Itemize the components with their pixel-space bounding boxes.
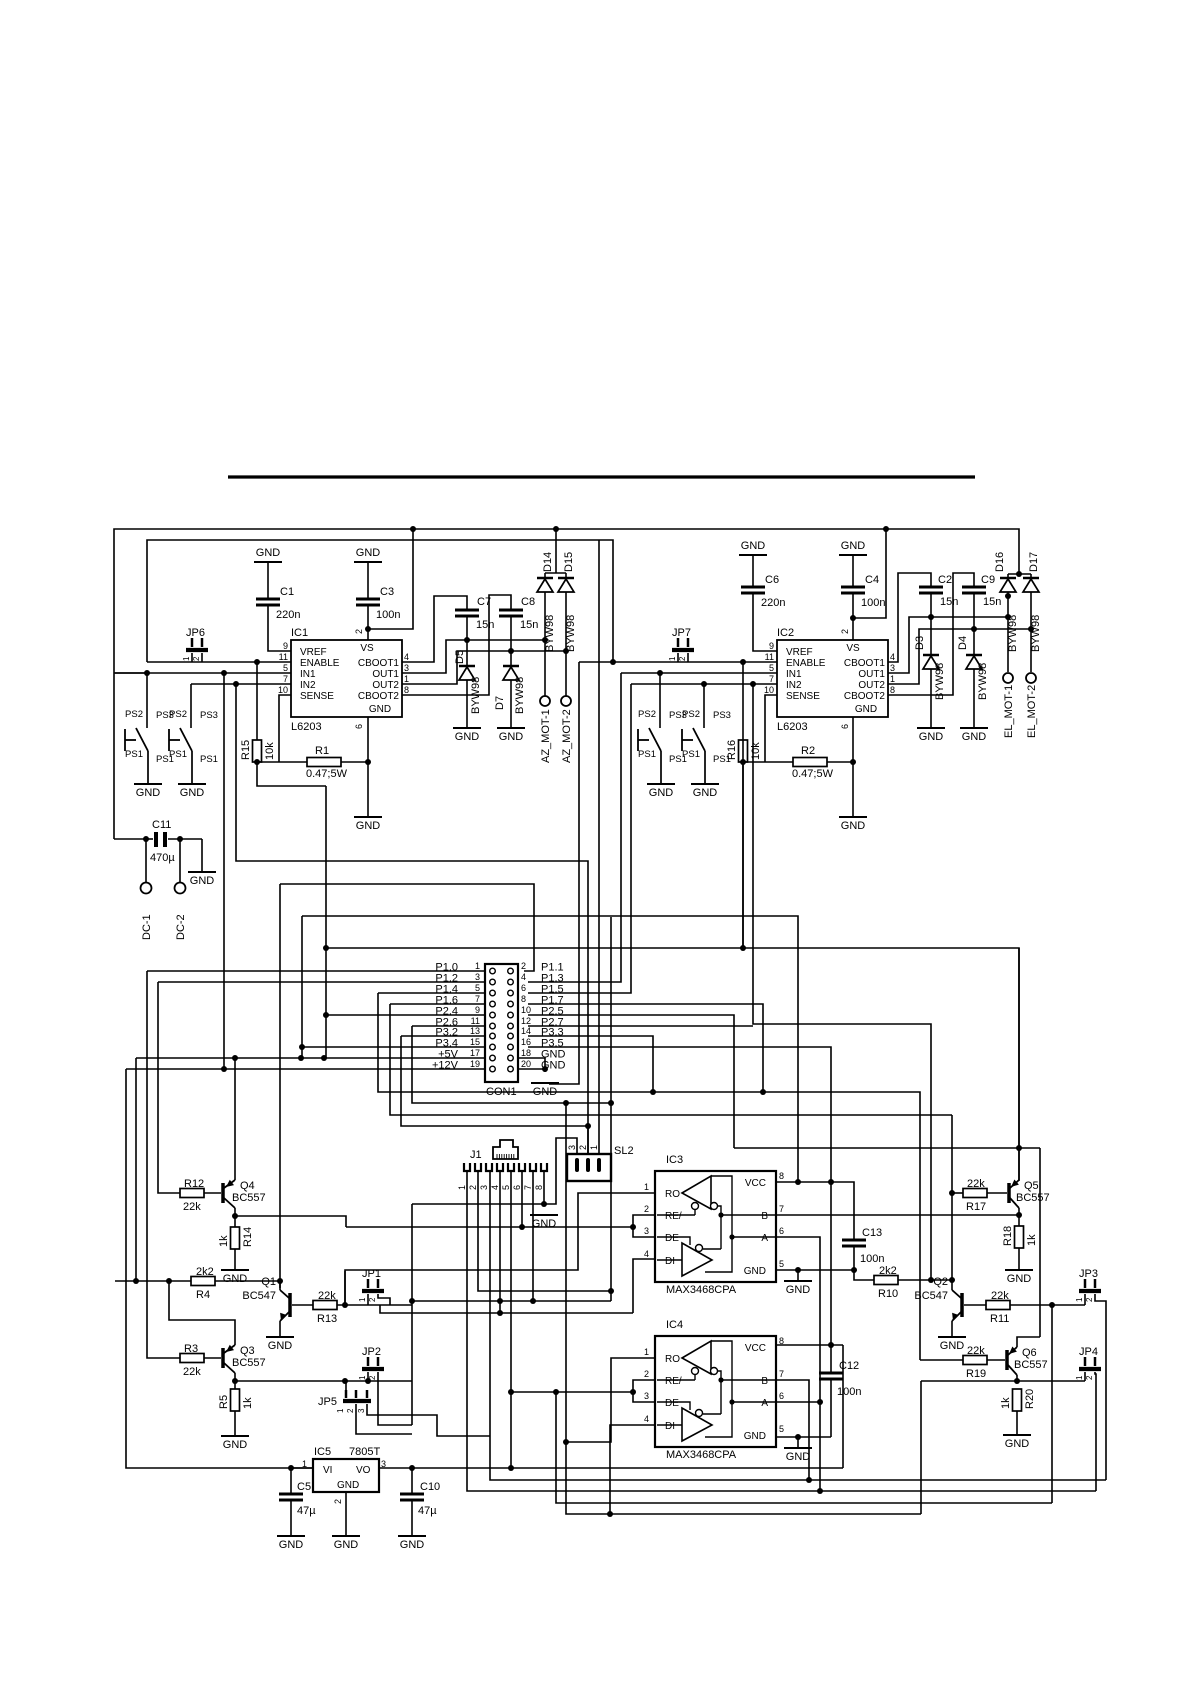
ground under D5 (453, 727, 481, 729)
svg-text:CBOOT2: CBOOT2 (358, 691, 400, 702)
resistor R4 2k2 (191, 1277, 215, 1286)
wire OUT1 to snubber line (402, 640, 545, 673)
svg-text:6: 6 (779, 1391, 784, 1401)
wire GND line to J1 pin8 (412, 1203, 544, 1205)
svg-text:IN2: IN2 (300, 680, 316, 691)
wire R14 from collector node (234, 1216, 236, 1227)
svg-text:6: 6 (512, 1185, 522, 1190)
wire P1.2 row to R12 feed riser (158, 981, 485, 983)
svg-text:DE: DE (665, 1233, 679, 1244)
IC4 junction internal B (718, 1377, 723, 1382)
svg-text:EL_MOT-2: EL_MOT-2 (1026, 685, 1038, 738)
J1 pin 5 symbol (508, 1163, 514, 1171)
svg-text:MAX3468CPA: MAX3468CPA (666, 1284, 737, 1296)
junction IN1 / switch S1 (144, 670, 150, 676)
svg-text:2: 2 (644, 1204, 649, 1214)
wire Q2 collector up (951, 1288, 953, 1290)
junction x326 y948 (323, 945, 329, 951)
svg-text:GND: GND (649, 787, 674, 799)
IC4 driver enable bubble (696, 1410, 703, 1417)
svg-text:22k: 22k (183, 1366, 201, 1378)
wire Q2 emitter to GND (951, 1321, 953, 1337)
svg-text:PS1: PS1 (200, 754, 218, 765)
wire P1.1 riser down to Q1 (279, 884, 281, 1288)
svg-text:R10: R10 (878, 1288, 898, 1300)
switch S3 (PS2/PS3) (659, 673, 661, 728)
wire R11 to JP3 pin1 (1010, 1304, 1085, 1306)
resistor R5 1k (231, 1389, 240, 1411)
wire R17 left to x952 riser (952, 1192, 963, 1194)
svg-text:DI: DI (665, 1256, 675, 1267)
wire P1.7 row right riser to y1093 (528, 1004, 763, 1092)
svg-text:1: 1 (182, 656, 191, 661)
CON1 pin 9 circle (490, 1012, 496, 1018)
capacitor C4 100n (852, 555, 854, 587)
svg-text:R12: R12 (184, 1178, 204, 1190)
resistor R10 2k2 (874, 1276, 898, 1285)
CON1 pin 13 circle (490, 1033, 496, 1039)
svg-text:1: 1 (890, 674, 895, 684)
resistor R16 10k (739, 740, 748, 762)
svg-text:SL2: SL2 (614, 1145, 634, 1157)
wire Q1 emitter to GND (279, 1321, 281, 1337)
svg-text:GND: GND (744, 1266, 766, 1277)
svg-text:D7: D7 (494, 696, 506, 710)
svg-text:7: 7 (779, 1369, 784, 1379)
svg-text:GND: GND (268, 1340, 293, 1352)
svg-text:GND: GND (962, 731, 987, 743)
wire P3.5 row right to VCC riser x831 (528, 1047, 831, 1182)
wire D15 to AZ_MOT-2 pad (565, 592, 567, 696)
ground under D4 (960, 727, 988, 729)
diode D16 BYW98 (1007, 574, 1009, 578)
ground under IC4 pin5 (797, 1437, 799, 1448)
capacitor C3 100n (367, 562, 369, 599)
wire R4 line (115, 1280, 280, 1282)
wire P3.3 row right riser to y1093 (528, 1036, 653, 1092)
junction OUT2 / AZ_MOT-2 line (563, 648, 569, 654)
wire SENSE2 down to R2 left (765, 695, 777, 762)
svg-text:5: 5 (779, 1424, 784, 1434)
junction P2.4 / x326 (323, 1012, 329, 1018)
svg-text:1: 1 (336, 1408, 345, 1413)
junction SL2 pin2 line (585, 1123, 591, 1129)
bracket IC3 RE DE tied (633, 1215, 655, 1237)
svg-text:R1: R1 (315, 745, 329, 757)
wire IC3 DI elbow to data line (633, 1259, 655, 1313)
wire x1040 supply drop (1039, 1148, 1041, 1337)
wire J1 pin4 down to data line (499, 1171, 501, 1313)
svg-text:PS1: PS1 (713, 754, 731, 765)
svg-text:6: 6 (779, 1226, 784, 1236)
wire IC4 RO left and down to x566 bus (566, 1358, 655, 1442)
junction OUT1 / AZ_MOT-1 line (542, 637, 548, 643)
junction Q6 collector / R20 (1014, 1378, 1020, 1384)
wire J1 pin6 to IC3 ctrl line (521, 1171, 523, 1227)
junction OUT1 / C7 bottom (464, 637, 470, 643)
svg-text:4: 4 (490, 1185, 500, 1190)
wire Q5 emitter up (1018, 1148, 1020, 1180)
svg-text:3: 3 (567, 1145, 577, 1150)
connector SL2 box (567, 1154, 611, 1181)
svg-text:SENSE: SENSE (786, 691, 820, 702)
ground under IC2 (839, 816, 867, 818)
svg-text:VI: VI (323, 1465, 332, 1476)
svg-text:PS2: PS2 (169, 709, 187, 720)
wire VS junction to rail riser right (853, 531, 886, 618)
svg-text:GND: GND (180, 787, 205, 799)
svg-text:RO: RO (665, 1354, 680, 1365)
wire D16 to EL_MOT-1 pad (1007, 592, 1009, 672)
svg-text:7: 7 (779, 1204, 784, 1214)
junction J1 pin5 / RS485-2 ctrl (508, 1389, 514, 1395)
wire IC3 ctrl line left (346, 1226, 633, 1228)
wire CON1 pin20 GND stub (518, 1068, 545, 1070)
svg-text:220n: 220n (276, 609, 300, 621)
CON1 pin 3 circle (490, 979, 496, 985)
wire rail drop joining D14 D15 cathodes (555, 529, 557, 573)
svg-text:VCC: VCC (745, 1178, 766, 1189)
svg-text:VREF: VREF (300, 647, 327, 658)
svg-text:L6203: L6203 (777, 721, 808, 733)
wire JP3 pin1 down (1084, 1294, 1086, 1305)
junction Q3 collector / ctrl2 line (232, 1378, 238, 1384)
svg-text:8: 8 (890, 685, 895, 695)
resistor R19 22k (963, 1356, 987, 1365)
svg-text:PS1: PS1 (125, 749, 143, 760)
junction Q4 collector node (232, 1213, 238, 1219)
ground under R14 (221, 1269, 249, 1271)
wire supply branch y948 to x1019 and Q5 (1018, 948, 1020, 1148)
junction R13 / RO line (342, 1302, 348, 1308)
junction C4 / VS (850, 615, 856, 621)
svg-text:PS2: PS2 (682, 709, 700, 720)
svg-text:GND: GND (1005, 1438, 1030, 1450)
wire Q6 collector to y1381 right (1016, 1375, 1018, 1381)
svg-text:L6203: L6203 (291, 721, 322, 733)
wire P1.4 row riser to y1092 bus to R19 (378, 992, 485, 994)
svg-text:RE/: RE/ (665, 1376, 682, 1387)
junction D16 bottom (1005, 593, 1011, 599)
wire IC3 A line down to IC4 A (776, 1237, 820, 1402)
resistor R15 10k (253, 740, 262, 762)
junction C13/GND line (851, 1267, 857, 1273)
svg-text:GND: GND (190, 875, 215, 887)
IC3 receiver enable bubble (692, 1203, 699, 1210)
svg-text:C11: C11 (152, 819, 171, 831)
wire x301 from y917 bus (301, 916, 303, 1058)
ground under Q2 (938, 1336, 966, 1338)
IC3 internal B net (718, 1206, 721, 1249)
svg-text:1: 1 (475, 961, 480, 971)
wire to GND stub right of C11 (201, 839, 203, 872)
resistor R13 22k (313, 1301, 337, 1310)
svg-text:2: 2 (578, 1145, 588, 1150)
CON1 pin 16 circle (508, 1044, 514, 1050)
svg-text:1k: 1k (1026, 1234, 1038, 1246)
svg-text:100n: 100n (376, 609, 400, 621)
transistor Q4 BC557 (221, 1183, 225, 1203)
svg-text:R13: R13 (317, 1313, 337, 1325)
ground under D7 (497, 727, 525, 729)
svg-text:7: 7 (283, 674, 288, 684)
svg-text:CBOOT1: CBOOT1 (844, 658, 886, 669)
J1 pin 2 symbol (475, 1163, 481, 1171)
svg-text:D14: D14 (542, 552, 554, 572)
svg-text:GND: GND (533, 1086, 558, 1098)
svg-text:C3: C3 (380, 586, 394, 598)
junction VCC x798 (795, 1179, 801, 1185)
svg-text:GND: GND (940, 1340, 965, 1352)
junction C11 right (177, 836, 183, 842)
svg-text:9: 9 (769, 641, 774, 651)
wire CBOOT2 to C8 top (402, 595, 511, 695)
IC U1 driver IC1 L6203 box (291, 640, 402, 717)
wire Q3 collector down (234, 1373, 236, 1389)
junction rail / D14 D15 riser (553, 526, 559, 532)
CON1 pin 15 circle (490, 1044, 496, 1050)
junction VO / C10 / x412 (409, 1465, 415, 1471)
capacitor C5 47u (290, 1468, 292, 1494)
wire sense bus riser x326 to y948 (326, 786, 1019, 1181)
svg-text:C7: C7 (477, 596, 491, 608)
CON1 pin 12 circle (508, 1023, 514, 1029)
capacitor C9 15n (962, 586, 986, 589)
wire IN2-2 net to IC2 pin 7 (631, 683, 777, 685)
svg-text:Q2: Q2 (933, 1276, 948, 1288)
wire x843 VCC to VO 5V line (842, 1345, 844, 1468)
svg-text:MAX3468CPA: MAX3468CPA (666, 1449, 737, 1461)
resistor R3 22k (180, 1354, 204, 1363)
svg-text:R2: R2 (801, 745, 815, 757)
wire Q4 emitter to +5V (234, 1058, 236, 1180)
wire x952 riser (951, 1115, 953, 1288)
svg-text:PS2: PS2 (125, 709, 143, 720)
svg-text:J1: J1 (470, 1149, 482, 1161)
svg-text:D16: D16 (994, 552, 1006, 572)
wire IC4 A line down to bus L2 (776, 1402, 820, 1492)
svg-text:BYW98: BYW98 (934, 663, 946, 700)
wire SL2 pin1 riser (598, 540, 600, 1154)
svg-text:EL_MOT-1: EL_MOT-1 (1003, 685, 1015, 738)
svg-text:2: 2 (678, 656, 687, 661)
CON1 pin 10 circle (508, 1012, 514, 1018)
svg-text:GND: GND (841, 540, 866, 552)
svg-text:4: 4 (644, 1249, 649, 1259)
switch S1 (PS2/PS3) (146, 673, 148, 728)
junction data line / J1 pin4 (497, 1310, 503, 1316)
wire IC4 VCC line (776, 1344, 843, 1346)
CON1 pin 7 circle (490, 1001, 496, 1007)
junction VI / C5 (288, 1465, 294, 1471)
wire JP7 pins down to ENABLE2 (677, 653, 679, 662)
wire IC4 GND pin5 (776, 1436, 831, 1438)
svg-text:BYW98: BYW98 (1030, 615, 1042, 652)
svg-text:2k2: 2k2 (879, 1265, 897, 1277)
svg-text:JP4: JP4 (1079, 1346, 1098, 1358)
wire C13 bottom to R10 (854, 1246, 874, 1280)
wire Q1 base to R13 (292, 1304, 313, 1306)
ground under IC1 (354, 816, 382, 818)
wire P1.0 row to R3 feed riser (147, 970, 485, 972)
IC U2 driver IC2 L6203 box (777, 640, 888, 717)
wire Q1 collector up (279, 1281, 281, 1290)
svg-text:RE/: RE/ (665, 1211, 682, 1222)
svg-text:1: 1 (358, 1297, 367, 1302)
junction IN1 riser x224 (221, 670, 227, 676)
svg-text:GND: GND (741, 540, 766, 552)
svg-text:JP6: JP6 (186, 627, 205, 639)
resistor R20 1k (1013, 1389, 1022, 1411)
wire IC3 VCC line (776, 1182, 854, 1240)
wire P2.5 row right to x734 (528, 1015, 734, 1148)
junction ENABLE2 riser x743 (740, 659, 746, 665)
svg-text:C5: C5 (297, 1481, 311, 1493)
wire J1 pin7 down (532, 1171, 534, 1301)
svg-text:GND: GND (356, 820, 381, 832)
svg-text:BC547: BC547 (914, 1290, 948, 1302)
wire R16 bottom down to supply bus (742, 761, 744, 948)
svg-text:100n: 100n (861, 597, 885, 609)
svg-text:R19: R19 (966, 1368, 986, 1380)
svg-text:2: 2 (840, 629, 850, 634)
svg-text:GND: GND (400, 1539, 425, 1551)
junction C3 / VS (365, 626, 371, 632)
wire R2 right to IC2 GND net (827, 761, 853, 763)
wire R5 to GND (234, 1411, 236, 1436)
svg-text:GND: GND (855, 704, 877, 715)
wire R18 from B node (1018, 1215, 1020, 1226)
diode D5 BYW98 (466, 640, 468, 666)
wire C3 to IC1 VS pin 2 (367, 605, 369, 640)
svg-text:Q6: Q6 (1022, 1347, 1037, 1359)
IC4 internal A net (705, 1341, 732, 1437)
resistor R1 0.47 5W (257, 761, 307, 763)
IC4 driver triangle (682, 1408, 712, 1441)
svg-text:CON1: CON1 (486, 1086, 517, 1098)
junction R4 / Q1 node (277, 1278, 283, 1284)
svg-text:CBOOT1: CBOOT1 (358, 658, 400, 669)
wire IC2 pin6 GND (852, 717, 854, 817)
J1 pin 6 symbol (519, 1163, 525, 1171)
SL2 pin 2 bar (586, 1158, 590, 1172)
wire CBOOT1 to C7 top (402, 596, 467, 662)
wire data line to IC3 DI (380, 1305, 633, 1313)
svg-text:3: 3 (404, 663, 409, 673)
capacitor C1 220n (267, 562, 269, 599)
svg-text:0.47;5W: 0.47;5W (306, 768, 348, 780)
junction VO / J1 pin5 (508, 1465, 514, 1471)
svg-text:JP5: JP5 (318, 1396, 337, 1408)
svg-text:OUT1: OUT1 (858, 669, 885, 680)
wire x324 from y948 bus (325, 948, 327, 1058)
svg-text:C13: C13 (862, 1227, 882, 1239)
junction R11 / x1052 (1049, 1302, 1055, 1308)
wire JP1 pin2 jog to base node (378, 1294, 390, 1305)
svg-text:100n: 100n (837, 1386, 861, 1398)
svg-text:15: 15 (470, 1037, 480, 1047)
CON1 pin 17 circle (490, 1055, 496, 1061)
CON1 pin 6 circle (508, 990, 514, 996)
resistor R18 1k (1015, 1226, 1024, 1248)
wire CBOOT1-2 up to C2 top (888, 573, 931, 662)
wire ENABLE net to IC1 pin 11 (147, 661, 291, 663)
pad AZ_MOT-1 (540, 696, 550, 706)
ground under R18 (1005, 1269, 1033, 1271)
wire D14 to AZ_MOT-1 pad (544, 592, 546, 696)
wire CON1 pin18 GND stub (518, 1058, 545, 1072)
junction RE/DE IC4 (630, 1389, 636, 1395)
ground under switch (134, 783, 162, 785)
svg-text:D4: D4 (957, 636, 969, 650)
svg-text:VREF: VREF (786, 647, 813, 658)
pad DC-1 (141, 883, 152, 894)
ground under switch (691, 783, 719, 785)
svg-text:JP2: JP2 (362, 1346, 381, 1358)
svg-text:11: 11 (471, 1016, 480, 1026)
wire IC3 B line to Q5 collector (776, 1214, 1019, 1216)
svg-text:C8: C8 (521, 596, 535, 608)
svg-text:1: 1 (404, 674, 409, 684)
capacitor C8 15n (499, 609, 523, 612)
svg-text:2: 2 (1085, 1375, 1094, 1380)
wire R12 feed from P1.2 (158, 982, 180, 1193)
junction OUT2 / C8 bottom (508, 648, 514, 654)
ground right of C11 (188, 871, 216, 873)
CON1 pin 4 circle (508, 979, 514, 985)
svg-text:8: 8 (521, 994, 526, 1004)
svg-text:7: 7 (523, 1185, 533, 1190)
wire IN1 line left end to frame (114, 672, 147, 674)
junction ctrl2 / JP5 pin1 (342, 1378, 348, 1384)
wire Q6 emitter to supply x1040 (1017, 1337, 1040, 1347)
svg-text:C6: C6 (765, 574, 779, 586)
svg-text:2: 2 (521, 961, 526, 971)
svg-text:1: 1 (1075, 1297, 1084, 1302)
diode D15 BYW98 (565, 573, 567, 578)
IC3 junction internal B (718, 1212, 723, 1217)
svg-text:GND: GND (532, 1218, 557, 1230)
svg-text:BC557: BC557 (1016, 1192, 1050, 1204)
wire J1 pin2 to x611 (478, 1171, 611, 1291)
wire R17 to Q5 base (987, 1192, 1007, 1194)
svg-text:5: 5 (283, 663, 288, 673)
svg-text:GND: GND (1007, 1273, 1032, 1285)
svg-text:19: 19 (470, 1059, 480, 1069)
junction IC4 GND (795, 1434, 801, 1440)
ground under J1 pin8 (530, 1214, 558, 1216)
wire ENABLE2 drop to CON1 GND area (549, 662, 579, 1084)
svg-text:C4: C4 (865, 574, 879, 586)
svg-text:470µ: 470µ (150, 852, 175, 864)
svg-text:D17: D17 (1028, 552, 1040, 572)
svg-text:13: 13 (470, 1026, 480, 1036)
ground under D3 (917, 727, 945, 729)
svg-text:22k: 22k (183, 1201, 201, 1213)
wire P1.6 row riser to y1115 bus to R17 (390, 1003, 485, 1005)
wire RO line riser (344, 1271, 346, 1305)
svg-text:GND: GND (499, 731, 524, 743)
wire +5V row (136, 1057, 485, 1059)
junction y1103 / x566 (563, 1100, 569, 1106)
svg-text:GND: GND (786, 1451, 811, 1463)
svg-text:3: 3 (644, 1226, 649, 1236)
svg-text:GND: GND (744, 1431, 766, 1442)
junction R16 / R2 (740, 759, 746, 765)
svg-text:BC557: BC557 (232, 1192, 266, 1204)
junction P3.3 riser / y1092 (650, 1089, 656, 1095)
junction VCC x831 (828, 1179, 834, 1185)
